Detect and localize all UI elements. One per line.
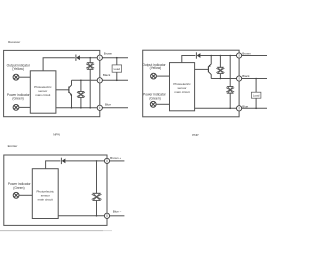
- wire black rail (collector to terminal) PNP: [211, 78, 236, 80]
- load L2: [251, 92, 261, 98]
- wire U2 base to Q2: [195, 68, 209, 70]
- PNP sensor housing outline: [143, 50, 239, 117]
- load L1: [112, 65, 122, 72]
- wire load column top PNP: [255, 79, 257, 93]
- node ZD2 top: [80, 80, 82, 82]
- zener ZD1 surge absorber: [86, 63, 94, 70]
- wire U3 top to brown rail: [46, 161, 61, 169]
- terminal Brown (Emitter): [104, 158, 109, 163]
- zener ZD2 surge absorber: [77, 92, 85, 98]
- wire zener ZD2 column: [80, 80, 82, 108]
- svg-text:PNP: PNP: [192, 133, 198, 137]
- svg-text:Black: Black: [242, 74, 250, 78]
- wire DS4 to U2: [156, 103, 169, 105]
- transistor Q1 NPN: [69, 80, 72, 108]
- wire DS5 to U3: [19, 194, 33, 196]
- svg-text:Brown: Brown: [104, 51, 113, 55]
- label U2 text: [173, 82, 191, 94]
- terminal Black (PNP): [237, 76, 242, 81]
- wire brown rail external Emitter: [110, 160, 125, 162]
- wire diode to brown terminal: [65, 160, 104, 162]
- svg-text:main circuit: main circuit: [35, 93, 50, 97]
- main circuit block U1 (NPN): [30, 71, 56, 113]
- node ZD4 brown: [229, 55, 231, 57]
- wire load column bottom PNP: [255, 98, 257, 108]
- svg-text:Load: Load: [253, 94, 260, 98]
- wire zener ZD1 column: [89, 58, 91, 108]
- wire diode to brown terminal: [200, 55, 236, 57]
- diode D2: [196, 52, 200, 58]
- wire load column bottom: [116, 72, 118, 80]
- node ZD4 blue: [229, 108, 231, 110]
- svg-text:Blue −: Blue −: [113, 210, 122, 214]
- wire brown rail external: [102, 57, 128, 59]
- node load brown: [116, 57, 118, 59]
- node ZD3 black: [220, 78, 222, 80]
- node load blue PNP: [255, 108, 257, 110]
- wire brown rail external PNP: [242, 55, 267, 57]
- node emitter brown: [210, 55, 212, 57]
- wire zener ZD3 column: [219, 56, 221, 79]
- wire blue rail U1 to terminal: [56, 107, 97, 109]
- terminal Blue (PNP): [237, 106, 242, 111]
- label Power indicator (Green) PNP: [143, 93, 167, 101]
- svg-text:Brown +: Brown +: [110, 156, 121, 160]
- main circuit block U3 (Emitter): [32, 169, 58, 219]
- node brown junction zener: [89, 57, 91, 59]
- zener ZD5 surge absorber: [92, 193, 102, 200]
- svg-text:(Yellow): (Yellow): [150, 66, 162, 70]
- wire blue rail external PNP: [242, 107, 267, 109]
- wire diode to brown terminal: [80, 57, 97, 59]
- svg-text:(Yellow): (Yellow): [12, 67, 24, 71]
- node load black: [116, 80, 118, 82]
- main circuit block U2 (PNP): [170, 63, 195, 111]
- node zener ZD5 brown: [96, 160, 98, 162]
- node load black PNP: [255, 78, 257, 80]
- lamp DS3 output indicator: [151, 73, 157, 79]
- node ZD2 blue: [80, 107, 82, 109]
- terminal Black (NPN): [97, 78, 102, 83]
- wire DS3 to U2: [156, 75, 169, 77]
- terminal Blue (NPN): [97, 105, 102, 110]
- wire black rail external: [102, 79, 128, 81]
- label Output indicator (Yellow): [7, 63, 31, 71]
- diode D1: [76, 55, 80, 61]
- svg-text:NPN: NPN: [53, 132, 60, 136]
- svg-text:Black: Black: [103, 73, 111, 77]
- wire DS1 to U1: [19, 76, 31, 78]
- wire U1 base to Q1: [56, 89, 69, 91]
- Emitter sensor housing outline: [4, 155, 107, 225]
- lamp DS1 output indicator: [13, 74, 19, 80]
- label U1 text: [34, 85, 52, 97]
- wire zener ZD5 column: [96, 161, 98, 216]
- zener ZD4 surge absorber: [226, 87, 234, 94]
- separator line: [0, 230, 103, 232]
- lamp DS2 power indicator: [13, 105, 19, 111]
- terminal Brown (PNP): [237, 53, 242, 58]
- svg-text:(Green): (Green): [12, 97, 23, 101]
- wire DS2 to U1: [19, 106, 31, 108]
- wire blue rail U2 to terminal: [195, 107, 237, 109]
- terminal Brown (NPN): [97, 55, 102, 60]
- diode D3: [61, 158, 65, 164]
- wire blue rail external: [102, 107, 128, 109]
- wire blue rail U3 to terminal: [58, 215, 104, 217]
- node ZD3 brown: [220, 55, 222, 57]
- svg-text:Blue: Blue: [242, 105, 248, 109]
- svg-text:Load: Load: [114, 67, 121, 71]
- node emitter blue: [71, 107, 73, 109]
- wire blue rail external Emitter: [110, 215, 125, 217]
- label Output indicator (Yellow) PNP: [142, 63, 166, 70]
- lamp DS4 power indicator: [150, 101, 156, 107]
- label Power indicator (Green) Emitter: [8, 182, 32, 190]
- NPN sensor housing outline: [4, 50, 100, 116]
- svg-text:main circuit: main circuit: [38, 197, 53, 201]
- zener ZD3 surge absorber: [216, 67, 224, 73]
- svg-text:main circuit: main circuit: [174, 90, 189, 94]
- terminal Blue (Emitter): [104, 213, 109, 218]
- wire U2 top to brown rail: [182, 56, 196, 63]
- wire black rail external PNP: [242, 78, 267, 80]
- svg-text:(Green): (Green): [13, 186, 24, 190]
- svg-text:Emitter: Emitter: [8, 144, 18, 148]
- transistor Q2 PNP: [208, 56, 211, 79]
- svg-text:Brown: Brown: [242, 51, 251, 55]
- wire black rail (collector to terminal): [72, 79, 98, 81]
- svg-text:Blue: Blue: [105, 102, 111, 106]
- node ZD1 blue: [89, 107, 91, 109]
- wire U1 top to brown rail: [43, 58, 75, 71]
- wire load column top: [116, 58, 118, 65]
- label U3 text: [37, 189, 55, 201]
- label Power indicator (Green): [7, 93, 31, 101]
- svg-text:Receiver: Receiver: [8, 40, 20, 44]
- wire zener ZD4 column: [229, 56, 231, 109]
- lamp DS5 power indicator: [13, 192, 19, 198]
- svg-text:(Green): (Green): [149, 96, 160, 100]
- node ZD5 blue: [96, 215, 98, 217]
